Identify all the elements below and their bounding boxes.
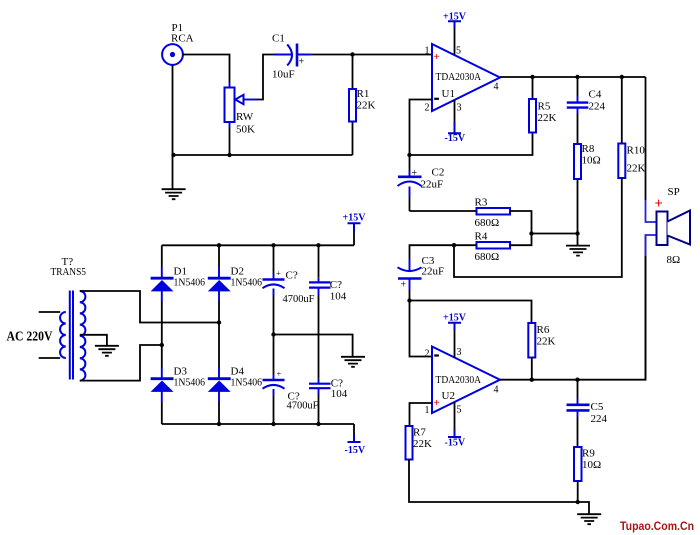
node brail C104 [316,422,320,426]
svg-text:22K: 22K [357,100,376,112]
svg-text:TDA2030A: TDA2030A [436,374,482,386]
diode D3 1N5406 [151,366,206,425]
node rail D2 [217,243,221,247]
wire center tap [80,335,107,346]
node rail C104 [316,243,320,247]
node output C4 [575,75,579,79]
capacitor C2 22uF [398,155,445,211]
resistor R9 10ohm [574,447,601,502]
wire C2 to R3 [410,210,477,212]
resistor R8 10ohm [574,143,601,246]
svg-text:+: + [299,57,305,68]
secondary winding [80,291,86,381]
diode D2 1N5406 [208,245,263,301]
op-amp U2 TDA2030A [425,347,501,416]
resistor R6 22K [528,323,555,380]
node C1/R1 [350,52,354,56]
svg-text:680Ω: 680Ω [475,217,500,229]
wire pin3 [454,100,456,122]
svg-text:10Ω: 10Ω [582,459,601,471]
svg-text:-15V: -15V [445,438,466,449]
svg-text:+: + [655,196,663,212]
wire U1 pin2 feedback [410,100,433,156]
svg-text:R8: R8 [582,143,595,155]
svg-text:1N5406: 1N5406 [231,377,263,389]
svg-text:C5: C5 [591,401,604,413]
node brail C filter [271,422,275,426]
node output R10 [620,75,624,79]
resistor R1 22K [349,55,376,156]
wire pin5 [454,29,456,55]
svg-text:2: 2 [425,103,430,114]
wire pin3 U2 [454,330,456,358]
svg-text:+: + [401,280,407,291]
wire R4 right [510,234,532,246]
svg-text:-15V: -15V [345,445,366,456]
svg-text:104: 104 [330,291,347,303]
ground (input) [162,189,186,199]
svg-text:3: 3 [457,103,462,114]
node at RW bottom [227,153,231,157]
wire R4 left to C3 [410,245,477,258]
svg-text:4700uF: 4700uF [287,400,319,412]
node secondary bottom to D1 column [160,343,164,347]
svg-text:3: 3 [457,347,462,358]
capacitor C? 4700uF (top) [263,245,315,334]
svg-text:Tupao.Com.Cn: Tupao.Com.Cn [620,519,694,533]
svg-text:-15V: -15V [445,133,466,144]
svg-text:104: 104 [331,388,348,400]
svg-text:5: 5 [457,405,462,416]
svg-text:U1: U1 [442,88,455,100]
node brail D4 [217,422,221,426]
svg-text:C?: C? [286,270,298,282]
svg-text:C1: C1 [272,33,285,45]
svg-text:22uF: 22uF [422,266,445,278]
node C3 bottom [407,298,411,302]
ground (mid rail) [341,357,365,367]
op-amp U1 TDA2030A [425,44,501,114]
svg-text:1N5406: 1N5406 [174,377,206,389]
diode D4 1N5406 [208,366,263,425]
svg-text:R10: R10 [627,145,646,157]
wire pin5 U2 [454,402,456,430]
node secondary top to D2 column [217,320,221,324]
svg-text:R9: R9 [582,448,595,460]
svg-text:U2: U2 [442,390,455,402]
node feedback [407,153,411,157]
power -15V (U1 pin3) [445,122,466,144]
svg-text:R1: R1 [357,88,370,100]
svg-text:22K: 22K [538,112,557,124]
resistor R7 22K [406,426,578,502]
wire U1 output [500,76,646,78]
wire to ground column [532,233,578,235]
svg-text:22K: 22K [537,336,556,348]
ground (R8) [566,246,590,256]
wire U1 output to speaker [645,77,647,200]
power -15V (U2 pin5) [445,430,466,449]
svg-text:4700uF: 4700uF [283,293,315,305]
svg-text:R7: R7 [413,427,426,439]
svg-text:C?: C? [330,279,342,291]
node at P1 ground [171,153,175,157]
node R3/R4 [529,231,533,235]
svg-text:680Ω: 680Ω [475,251,500,263]
svg-text:10uF: 10uF [272,69,295,81]
node R4/R10 branch [452,243,456,247]
wire P1 to RW top [182,55,230,83]
svg-text:+: + [412,168,418,179]
wire negative bottom rail [162,423,354,425]
capacitor C1 10uF [272,33,311,81]
svg-text:+: + [276,268,281,278]
capacitor C3 22uF [398,255,445,301]
core [70,291,73,380]
svg-text:TDA2030A: TDA2030A [436,71,482,83]
svg-text:+: + [434,51,440,63]
node mid rail [271,332,275,336]
svg-text:SP: SP [668,186,680,198]
svg-text:50K: 50K [236,124,255,136]
speaker SP 8ohm [646,186,691,380]
diode D1 1N5406 [151,245,206,301]
node output R6 [530,378,534,382]
wire primary leads [39,312,61,358]
connector P1 RCA [162,22,194,65]
wire input ground bus [173,154,353,156]
wire mid rail to ground [274,335,353,357]
capacitor C? 4700uF (bottom) [263,335,319,425]
wire D1-D3 column [161,302,163,369]
power -15V (PSU) [345,424,366,456]
capacitor C5 224 [567,380,608,447]
svg-text:224: 224 [591,413,608,425]
svg-text:4: 4 [494,385,499,396]
svg-text:1: 1 [425,405,430,416]
capacitor C? 104 (top) [309,245,347,378]
svg-text:1: 1 [425,46,430,57]
node output C5 [575,378,579,382]
svg-text:TRANS5: TRANS5 [51,266,87,278]
svg-text:22K: 22K [627,163,646,175]
svg-text:5: 5 [456,46,461,57]
potentiometer RW 50K [225,83,258,156]
primary winding [60,312,66,358]
svg-text:R5: R5 [538,101,551,113]
node at R8 column [575,231,579,235]
svg-text:R4: R4 [475,231,488,243]
wire D2-D4 column [218,302,220,369]
wire RW wiper to C1 [257,55,274,100]
wire R3 right [510,211,532,234]
svg-text:C4: C4 [589,89,602,101]
svg-text:+: + [277,369,282,379]
resistor R5 22K [529,77,557,133]
power +15V (PSU) [343,213,367,246]
svg-text:+: + [434,397,440,409]
capacitor C4 224 [567,77,606,144]
resistor R4 680 [475,231,511,264]
svg-text:1N5406: 1N5406 [231,277,263,289]
ground (output) [577,502,601,524]
wire positive top rail [162,244,354,246]
wire secondary bottom lead [80,345,162,381]
resistor R3 680 [475,197,511,230]
wire U2 pin1 [410,403,433,426]
svg-text:R6: R6 [537,324,550,336]
power +15V (U2 pin3) [443,313,467,331]
svg-text:8Ω: 8Ω [667,254,681,266]
svg-text:AC 220V: AC 220V [7,330,53,345]
svg-text:2: 2 [425,349,430,360]
svg-text:22uF: 22uF [421,179,444,191]
svg-text:4: 4 [494,82,499,93]
wire P1 down to ground [172,65,174,189]
wire secondary top lead [80,291,219,323]
svg-text:1N5406: 1N5406 [174,277,206,289]
svg-text:R3: R3 [475,197,488,209]
capacitor C? 104 (bottom) [309,378,348,425]
transformer T? TRANS5 [51,256,87,381]
resistor R10 22K [454,77,646,277]
svg-text:RCA: RCA [171,33,194,45]
svg-text:+15V: +15V [343,213,367,224]
wire C3 to U2 pin2 [410,301,433,357]
wire C3 to R6 [410,301,532,324]
wire feedback to R5 [410,133,533,156]
svg-text:10Ω: 10Ω [582,155,601,167]
svg-text:C2: C2 [432,167,445,179]
node rail C filter [271,243,275,247]
ground (center tap) [95,346,119,356]
wire U2 output [500,236,646,380]
power +15V (U1 pin5) [443,12,467,29]
svg-text:22K: 22K [413,438,432,450]
node R9 ground [576,500,580,504]
svg-text:RW: RW [236,111,254,123]
node output R5 [530,75,534,79]
svg-text:224: 224 [589,101,606,113]
wire C1 to U1 pin1 [311,54,432,56]
